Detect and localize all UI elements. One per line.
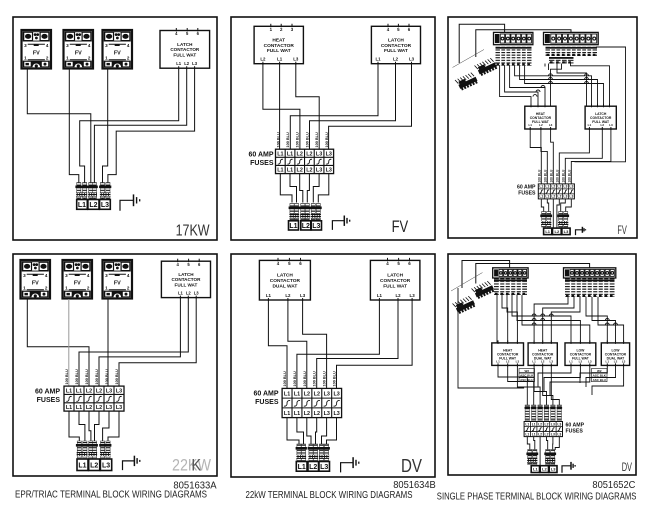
svg-text:L3: L3 [563, 195, 567, 199]
svg-text:2: 2 [88, 55, 91, 60]
guide line (P3) [453, 50, 485, 68]
terminal L3 (P4) [100, 459, 111, 471]
wire K3-L1 (P6) [538, 365, 571, 387]
wire fuse col4 to L2 (P5) [316, 418, 317, 446]
wire K1-L2 to fuse col2 (P6) [508, 365, 534, 405]
svg-text:100 BLU: 100 BLU [333, 371, 337, 386]
svg-text:3: 3 [66, 43, 69, 48]
terminal L1 (P6) [531, 466, 539, 473]
svg-text:L1: L1 [78, 202, 86, 209]
crimp connectors right (P3) [557, 212, 569, 228]
svg-text:L1: L1 [298, 464, 306, 471]
triac module FV1 [22, 30, 52, 69]
svg-text:L2: L2 [601, 123, 605, 127]
svg-text:L2: L2 [314, 411, 320, 417]
svg-text:L2: L2 [306, 168, 312, 174]
wire fuse col4 down (P6) [547, 437, 548, 450]
svg-text:L1: L1 [294, 391, 300, 397]
svg-text:EPR/TRIAC TERMINAL BLOCK WIRIN: EPR/TRIAC TERMINAL BLOCK WIRING DIAGRAMS [15, 490, 207, 501]
svg-text:L3: L3 [192, 61, 198, 66]
svg-text:FV: FV [75, 50, 82, 56]
triac module FV2 (P4) [63, 260, 93, 299]
terminal L1 (P1) [77, 200, 88, 210]
svg-text:FV: FV [32, 280, 39, 286]
wire K1 pin L1 to terminal L1 [80, 68, 179, 200]
ground (P3) [576, 227, 586, 235]
svg-text:L2: L2 [557, 185, 561, 189]
guide line (P6) [451, 273, 483, 292]
svg-text:L1: L1 [277, 151, 283, 157]
svg-text:L2: L2 [306, 151, 312, 157]
svg-text:L3: L3 [326, 168, 332, 174]
svg-text:L1: L1 [287, 168, 293, 174]
svg-text:DV: DV [622, 462, 633, 474]
panel frame P2 (22kW FV) [231, 17, 435, 240]
svg-text:4: 4 [127, 273, 130, 278]
wire FV1 to L2 [27, 69, 91, 201]
svg-text:100 BLU: 100 BLU [65, 369, 69, 384]
svg-text:FULL WAT: FULL WAT [175, 282, 198, 287]
wire hop 9 (P3) [533, 95, 537, 97]
svg-text:L1: L1 [287, 151, 293, 157]
svg-text:2: 2 [127, 55, 130, 60]
triac module FV3 (P4) [103, 260, 133, 299]
terminal L2 (P3) [553, 228, 562, 235]
terminal strip TS2 (P3) [544, 32, 599, 44]
svg-text:L1: L1 [66, 405, 72, 411]
wire TS2-2 to heat pin4 [551, 64, 562, 107]
wire fuse col2 down (P3) [547, 199, 548, 212]
crimp/label block under TS1 (P6) [494, 279, 527, 296]
wire fuse col1 down (P3) [541, 199, 543, 212]
contactor latch contactor K1 [160, 28, 210, 69]
svg-text:1: 1 [105, 285, 108, 290]
wire fuse col1 to L1 (P4) [69, 411, 79, 444]
wire TS2-1 to latch pin4 [571, 64, 610, 107]
svg-text:100 BLU: 100 BLU [293, 371, 297, 386]
svg-text:100 BLU: 100 BLU [562, 169, 566, 182]
svg-text:FUSES: FUSES [37, 397, 61, 404]
wire fuse col3 to L2 (P4) [89, 411, 91, 444]
svg-text:4: 4 [87, 273, 90, 278]
wire fuse col3 down (P6) [539, 437, 541, 466]
svg-text:L1: L1 [533, 467, 538, 472]
svg-text:L2: L2 [551, 195, 555, 199]
svg-text:L3: L3 [588, 359, 592, 363]
svg-text:L3: L3 [609, 123, 613, 127]
wire TS2-3 to latch pin0 [557, 64, 587, 107]
svg-text:3: 3 [23, 273, 26, 278]
svg-text:L3: L3 [194, 291, 200, 296]
svg-text:FV: FV [114, 280, 121, 286]
wire tag stack (P6 left) [519, 369, 535, 383]
terminal L1 (P5) [296, 462, 307, 472]
wire latch L3 to fuse col6 (P4) [119, 298, 196, 387]
svg-text:L3: L3 [312, 223, 320, 230]
svg-text:L1: L1 [532, 432, 536, 436]
svg-text:100 BLU: 100 BLU [95, 369, 99, 384]
svg-text:L3: L3 [409, 57, 415, 62]
crimp connectors L2 (P2) [299, 204, 310, 220]
J2 (P6) [453, 295, 476, 315]
svg-text:3: 3 [105, 273, 108, 278]
wire latch L3 to fuse col6 (P3) [571, 129, 611, 184]
svg-text:L1: L1 [569, 359, 573, 363]
svg-text:L2: L2 [551, 185, 555, 189]
svg-text:L1: L1 [539, 195, 543, 199]
wire TS1-5 to latch pin2 [520, 66, 598, 107]
terminal L3 (P2) [311, 221, 321, 230]
terminal L2 (P6) [540, 466, 548, 473]
wire TS2-4 stub [548, 64, 550, 71]
triac module FV1 (P4) [21, 260, 51, 299]
wire fuse col4 down (P3) [557, 199, 559, 228]
svg-text:3: 3 [105, 43, 108, 48]
svg-text:L2: L2 [309, 464, 317, 471]
svg-text:100 BLU: 100 BLU [286, 132, 290, 147]
svg-text:ASC BLK: ASC BLK [593, 373, 607, 377]
contactor latch contactor (P2) [371, 24, 420, 65]
svg-text:1: 1 [105, 55, 108, 60]
wire fuse col6 down (P3) [566, 199, 572, 212]
wire fuse col5 down (P3) [561, 199, 566, 212]
svg-text:L2: L2 [538, 422, 542, 426]
terminal L3 (P6) [549, 466, 557, 473]
wire TS2-4 to K4 (P6) [586, 297, 607, 343]
svg-text:FV: FV [392, 217, 409, 236]
fuse block F1-F6 (P5) [282, 388, 342, 417]
terminal L2 (P1) [88, 200, 99, 210]
wire hop 8 (P3) [541, 86, 545, 88]
wire fuse col1 to L1 [280, 174, 292, 203]
terminal strip TS1 (P3) [494, 32, 533, 44]
wire fuse col3 down (P3) [552, 199, 554, 228]
crimp connectors L2 (P5) [308, 444, 319, 461]
svg-text:L1: L1 [284, 391, 290, 397]
svg-text:1: 1 [23, 285, 26, 290]
svg-text:L1: L1 [284, 411, 290, 417]
svg-text:L2: L2 [86, 405, 92, 411]
svg-text:FV: FV [114, 50, 121, 56]
wire TS2-2 to K2 (P6) [543, 297, 574, 343]
svg-text:100 BLU: 100 BLU [550, 169, 554, 182]
svg-text:L3: L3 [316, 168, 322, 174]
svg-text:L1: L1 [377, 293, 383, 298]
wire K1-L3 to fuse col3 (P6) [517, 365, 540, 405]
svg-text:L2: L2 [285, 293, 291, 298]
svg-text:FULL WAT: FULL WAT [383, 283, 407, 289]
svg-text:L1: L1 [289, 223, 297, 230]
wire hop h (P6) [605, 323, 609, 325]
wire latch L2 to fuse col5 (P3) [565, 129, 602, 184]
crimp/label block under TS2 (P6) [565, 279, 615, 298]
wire TS2-1 to K2 (P6) [534, 297, 568, 343]
wire FV3 to L3 [103, 69, 108, 201]
crimp/label block under TS2 wide (P3) [546, 46, 598, 56]
svg-text:L3: L3 [557, 432, 561, 436]
svg-text:100 BLU: 100 BLU [283, 371, 287, 386]
svg-text:L3: L3 [102, 462, 110, 469]
wire loop to connector J2 [459, 24, 504, 63]
svg-text:L3: L3 [569, 185, 573, 189]
svg-text:L2: L2 [541, 359, 545, 363]
svg-text:100 BLU: 100 BLU [313, 371, 317, 386]
wire dual L3 to fuse col5 (P5) [303, 300, 327, 388]
wire fuse col6 to L3 [318, 174, 329, 203]
wire hop 2 (P3) [549, 78, 553, 80]
svg-text:FV: FV [74, 280, 81, 286]
svg-text:L2: L2 [302, 223, 310, 230]
contactor latch contactor (P3) [585, 104, 616, 130]
terminal L2 (P4) [89, 459, 100, 471]
svg-text:L1: L1 [545, 195, 549, 199]
svg-text:L2: L2 [96, 405, 102, 411]
svg-text:L1: L1 [277, 168, 283, 174]
svg-text:FUSES: FUSES [255, 399, 279, 406]
svg-text:L1: L1 [496, 359, 500, 363]
svg-text:L2: L2 [395, 293, 401, 298]
svg-text:100 BLU: 100 BLU [544, 169, 548, 182]
svg-text:L1: L1 [539, 185, 543, 189]
svg-text:3: 3 [24, 43, 27, 48]
svg-text:L3: L3 [326, 151, 332, 157]
svg-text:100 BLU: 100 BLU [276, 132, 280, 147]
panel frame P4 (22KW EPR/TRIAC) [13, 254, 217, 476]
ground (P4) [123, 456, 140, 470]
wire K4-L2 (P6) [586, 365, 616, 387]
svg-text:L2: L2 [506, 359, 510, 363]
svg-text:L2: L2 [96, 388, 102, 394]
svg-text:L1: L1 [76, 388, 82, 394]
panel frame P6 (single phase DV) [448, 254, 636, 475]
svg-text:60 AMP: 60 AMP [253, 391, 278, 398]
wire latch L2 to fuse col4 [310, 64, 396, 150]
svg-text:FUSES: FUSES [518, 191, 536, 197]
svg-text:L2: L2 [304, 411, 310, 417]
wire heat L1 to fuse col1 (P3) [530, 129, 541, 184]
svg-text:L2: L2 [614, 359, 618, 363]
svg-text:4: 4 [46, 43, 49, 48]
svg-text:4: 4 [127, 43, 130, 48]
wire full L1 to fuse col2 (P5) [297, 300, 380, 388]
svg-text:L3: L3 [300, 293, 306, 298]
svg-text:L2: L2 [393, 57, 399, 62]
svg-text:L3: L3 [333, 391, 339, 397]
svg-text:L3: L3 [106, 405, 112, 411]
svg-text:100 BLU: 100 BLU [75, 369, 79, 384]
svg-text:CONTACTOR: CONTACTOR [270, 278, 301, 284]
wire hop f (P6) [532, 323, 536, 325]
svg-text:100 BLU: 100 BLU [85, 369, 89, 384]
svg-text:L3: L3 [564, 229, 569, 234]
wire TS1-3 to heat pin3 [510, 66, 545, 107]
svg-text:L1: L1 [606, 359, 610, 363]
svg-text:100 BLU: 100 BLU [323, 371, 327, 386]
wire heat L3 to fuse col5 [296, 64, 319, 150]
wire left edge drop (P6) [458, 288, 524, 388]
wire K2-L1 to fuse col4 (P6) [534, 365, 546, 405]
wire K3-L3 (P6) [550, 365, 590, 395]
wire loop to connector J1 (P6) [476, 264, 590, 284]
svg-text:DV: DV [401, 456, 422, 476]
fuse block F1-F6 (P4) [64, 386, 124, 411]
svg-text:L2: L2 [297, 168, 303, 174]
terminal L1 (P4) [77, 459, 88, 471]
svg-text:L2: L2 [184, 61, 190, 66]
contactor latch contactor full (P5) [370, 258, 420, 301]
svg-text:L3: L3 [551, 432, 555, 436]
J1 (P3) [475, 57, 498, 77]
svg-text:100 BLU: 100 BLU [105, 369, 109, 384]
fuse block F1-F6 (P2) [276, 149, 334, 173]
svg-text:L2: L2 [539, 123, 543, 127]
terminal strip TS1 (P6) [493, 268, 528, 278]
crimp connectors L1 (P1) [75, 183, 88, 199]
wire heat L1 to fuse col1 [279, 64, 281, 150]
svg-text:L3: L3 [324, 391, 330, 397]
svg-text:L3: L3 [569, 195, 573, 199]
wire K2-L2 to fuse col5 (P6) [543, 365, 553, 405]
contactor latch contactor dual (P5) [259, 258, 310, 301]
svg-text:L3: L3 [551, 422, 555, 426]
svg-text:W2: W2 [525, 369, 530, 373]
wire fuse col6 to L3 (P4) [108, 411, 119, 444]
wire hop 6 (P3) [585, 82, 589, 84]
svg-text:HEAT: HEAT [272, 37, 285, 43]
svg-text:L2: L2 [90, 462, 98, 469]
svg-text:L3: L3 [116, 388, 122, 394]
wire hop 5 (P3) [585, 78, 589, 80]
svg-text:FULL WAT: FULL WAT [384, 48, 408, 54]
svg-text:DUAL WAT: DUAL WAT [272, 283, 297, 289]
contactor heat contactor (P2) [254, 24, 303, 65]
terminal L3 (P3) [562, 228, 570, 235]
svg-text:2: 2 [127, 285, 130, 290]
svg-text:3: 3 [65, 273, 68, 278]
svg-text:60 AMP: 60 AMP [35, 389, 60, 396]
svg-text:100 BLU: 100 BLU [115, 369, 119, 384]
svg-text:L2: L2 [89, 202, 97, 209]
svg-text:L3: L3 [550, 359, 554, 363]
terminal L2 (P2) [301, 221, 311, 230]
wire hop 3 (P3) [549, 82, 553, 84]
crimp connectors L1 (P4) [76, 441, 88, 458]
svg-text:L3: L3 [101, 202, 109, 209]
svg-text:L1: L1 [375, 57, 381, 62]
J1 (P6) [472, 280, 495, 300]
svg-text:L1: L1 [532, 359, 536, 363]
wire dual L2 to fuse col3 (P5) [288, 300, 307, 388]
svg-text:L3: L3 [516, 359, 520, 363]
svg-text:1: 1 [24, 55, 27, 60]
wire K1 pin L3 to terminal L3 [108, 68, 195, 200]
ground (P1) [120, 194, 140, 210]
wire TS1-2 (P6) [502, 295, 508, 343]
svg-text:L1: L1 [66, 388, 72, 394]
wire FV2 to fuse col1 (P4, grey) [68, 299, 70, 386]
wire latch L3 to fuse col6 [329, 64, 412, 150]
wire hop 7 (P3) [536, 90, 540, 92]
svg-text:SINGLE PHASE TERMINAL BLOCK WI: SINGLE PHASE TERMINAL BLOCK WIRING DIAGR… [437, 492, 637, 503]
wire fuse col5 to L3 (P5) [322, 418, 327, 446]
wire K3-L2 (P6) [544, 365, 580, 391]
svg-text:W2: W2 [597, 369, 602, 373]
svg-text:L3: L3 [106, 388, 112, 394]
wire hop i (P6) [614, 323, 618, 325]
svg-text:L2: L2 [579, 359, 583, 363]
wire fuse col4 to L2 [307, 174, 309, 203]
svg-text:L3: L3 [410, 293, 416, 298]
crimp connectors left (P3) [540, 212, 552, 228]
wire hop 4 (P3) [585, 74, 589, 76]
wire dual L1 to fuse col1 (P5) [268, 300, 287, 388]
crimp connectors L2 (P1) [87, 183, 97, 199]
svg-text:CONTACTOR: CONTACTOR [380, 278, 411, 284]
wire heat L2 to fuse col3 [263, 64, 300, 150]
wire hop a (P6) [532, 314, 536, 316]
wire FV2 to L1 [69, 69, 79, 201]
wire hop 1 (P3) [549, 74, 553, 76]
wire TS1-5 to K3 (P6) [517, 295, 580, 343]
svg-text:L3: L3 [563, 185, 567, 189]
svg-text:L1: L1 [525, 422, 529, 426]
svg-text:L3: L3 [320, 464, 328, 471]
crimp connectors L3 (P1) [99, 183, 111, 199]
triac module FV2 [64, 30, 94, 69]
triac module FV3 [103, 30, 133, 69]
wire full L3 to fuse col6 (P5) [337, 300, 413, 388]
svg-text:L2: L2 [557, 195, 561, 199]
svg-text:L3: L3 [293, 57, 299, 62]
svg-text:L2: L2 [545, 432, 549, 436]
crimp/label block under TS2 narrow (P3) [549, 56, 574, 64]
svg-text:LATCH: LATCH [388, 37, 404, 43]
wire TS2-6 to K4 (P6) [598, 297, 624, 343]
crimp connectors right (P6) [544, 450, 556, 465]
crimp connectors L1 (P2) [289, 204, 300, 220]
wire crimp labels above fuse block (P6) [525, 405, 563, 421]
wire hop c (P6) [549, 314, 553, 316]
svg-text:L1: L1 [588, 123, 592, 127]
wire fuse col2 down (P6) [534, 437, 535, 450]
svg-text:L1: L1 [178, 291, 184, 296]
svg-text:L3: L3 [116, 405, 122, 411]
svg-text:2: 2 [45, 285, 48, 290]
wire TS1-2 to heat pin2 [505, 66, 538, 107]
terminal strip TS2 (P6) [564, 268, 616, 278]
svg-text:100 BLU: 100 BLU [305, 132, 309, 147]
svg-text:L3: L3 [316, 151, 322, 157]
wire tag stack (P6 right) [592, 369, 608, 383]
svg-text:L2: L2 [538, 432, 542, 436]
svg-text:L2: L2 [542, 467, 547, 472]
wire K4-L1 (P6) [580, 365, 607, 383]
svg-text:L1: L1 [532, 422, 536, 426]
svg-text:L2: L2 [545, 422, 549, 426]
svg-text:LATCH: LATCH [387, 273, 403, 279]
wire fuse col6 down (P6) [555, 437, 559, 450]
contactor low contactor dual (P6) [601, 340, 629, 366]
ground (P5) [341, 457, 359, 472]
svg-text:FUSES: FUSES [566, 429, 584, 435]
wire fuse col5 to L3 (P4) [103, 411, 109, 444]
svg-text:L2: L2 [186, 291, 192, 296]
wire hop e (P6) [541, 319, 545, 321]
contactor heat contactor dual (P6) [528, 340, 557, 366]
fuse block F1-F6 (P6) [524, 422, 562, 437]
terminal L1 (P3) [544, 228, 552, 235]
wire fuse col2 to L1 (P4) [79, 411, 85, 444]
